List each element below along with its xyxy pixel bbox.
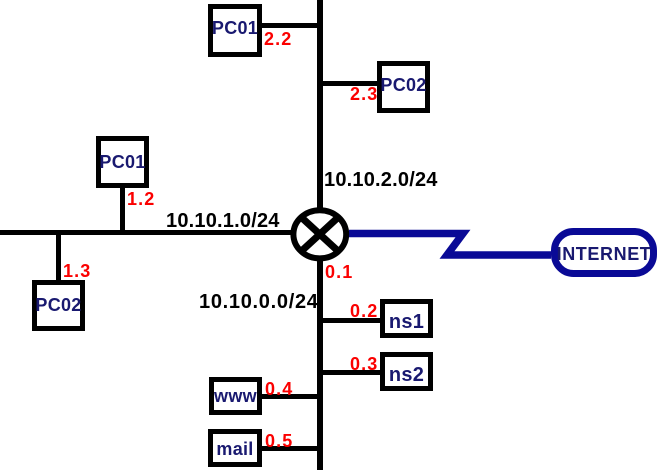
svg-text:INTERNET: INTERNET: [557, 244, 652, 264]
